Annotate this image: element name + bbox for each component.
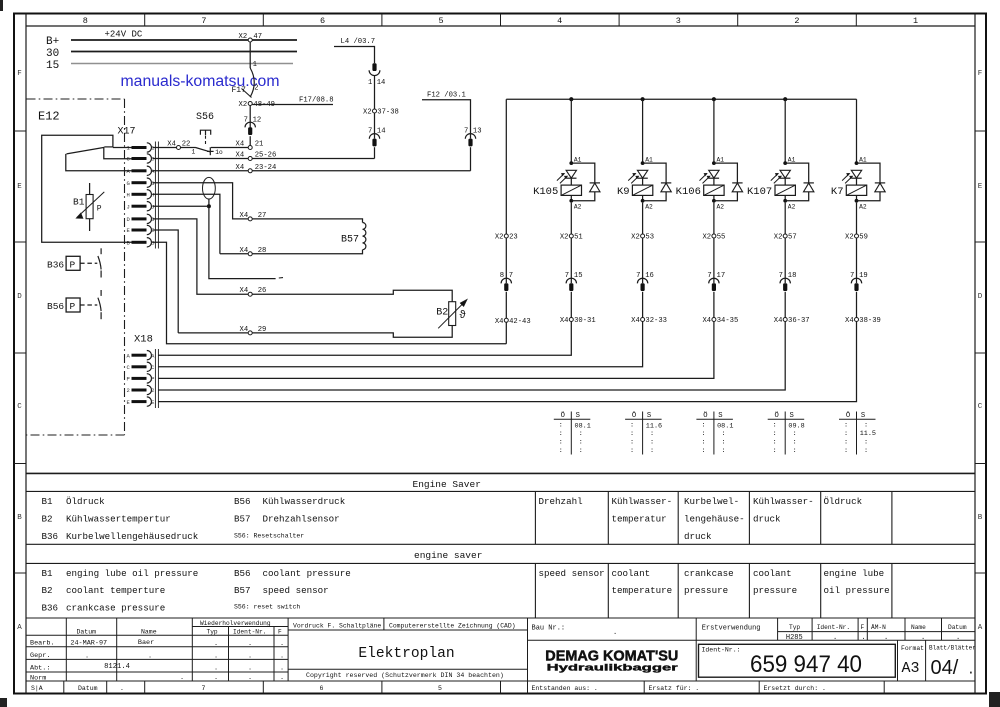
svg-text:E: E (978, 183, 983, 191)
svg-text:coolant pressure: coolant pressure (263, 568, 351, 579)
connector 7 15 symbol (566, 278, 576, 283)
wire 7 13 down to X4 23-24 row (470, 147, 472, 171)
svg-text:Ident-Nr.:: Ident-Nr.: (702, 646, 741, 653)
svg-text:E: E (151, 227, 155, 234)
svg-text:enging lube oil pressure: enging lube oil pressure (66, 568, 198, 579)
terminal A1 of K7 (855, 161, 859, 165)
bottom strip line (26, 680, 975, 682)
svg-text:B56: B56 (234, 496, 251, 507)
svg-text:F17/08.8: F17/08.8 (299, 97, 334, 105)
svg-text:S56: S56 (196, 112, 214, 123)
svg-text:.: . (214, 653, 218, 661)
wire F17/08.8 stub going right (252, 104, 333, 106)
svg-text:.: . (248, 653, 252, 661)
svg-text:14: 14 (377, 128, 386, 136)
wire X4 42-43 down to return corner (505, 322, 507, 344)
connector X17 pin J (132, 205, 147, 208)
svg-text:F: F (278, 628, 282, 635)
node X2 59 (855, 234, 859, 238)
wire 7 19 to node X4 38-39 (856, 292, 858, 318)
wire LED to coil of K105 (570, 178, 572, 185)
svg-text:7: 7 (201, 16, 206, 26)
wire LED to coil of K107 (784, 178, 786, 185)
wire 7 14 down to X4 25-26 row (374, 147, 376, 158)
svg-text:Engine Saver: Engine Saver (413, 479, 481, 490)
svg-text:A2: A2 (717, 203, 725, 210)
wire X4 32-33 down to X18 run (158, 322, 642, 367)
node X4 22 (177, 146, 181, 150)
wire 8 7 to node X4 42-43 (505, 292, 507, 319)
svg-text:pressure: pressure (684, 585, 728, 596)
svg-text:.: . (214, 640, 218, 648)
svg-text::: : (630, 447, 634, 455)
wire X17 pin H riser (153, 194, 220, 254)
svg-text:Entstanden aus: .: Entstanden aus: . (532, 685, 598, 692)
connector X17 pin D (132, 217, 147, 220)
connector 1 14 symbol (male above female) (372, 63, 376, 71)
svg-text:speed sensor: speed sensor (539, 568, 605, 579)
B1 switch contact to pin C wire (104, 147, 132, 158)
svg-text:Format: Format (901, 645, 924, 652)
svg-text:2: 2 (794, 16, 799, 26)
svg-text:A: A (127, 168, 131, 175)
svg-text:H: H (151, 192, 154, 199)
node X4 27 (248, 217, 252, 221)
svg-text::: : (701, 447, 705, 455)
svg-text:P: P (127, 376, 130, 383)
svg-text:engine saver: engine saver (414, 550, 482, 561)
ident number box (699, 644, 896, 677)
B1 switch blade (67, 147, 105, 154)
svg-text::: : (844, 447, 848, 455)
shield drain to pin J wire (208, 199, 210, 205)
wire X4 30-31 down to X18 run (158, 322, 571, 356)
svg-text:B1: B1 (42, 496, 54, 507)
freewheel diode of K107 (785, 163, 809, 183)
svg-text:23-24: 23-24 (255, 164, 277, 172)
svg-text:B36: B36 (42, 531, 59, 542)
svg-text:Drehzahl: Drehzahl (539, 496, 583, 507)
wire X2 37-38 down to connector 7 14 (374, 113, 376, 139)
svg-text::: : (701, 430, 705, 438)
svg-text:1: 1 (127, 145, 131, 152)
svg-text:Erstverwendung: Erstverwendung (702, 625, 761, 633)
svg-text:C: C (151, 156, 155, 163)
svg-text:Bau Nr.:: Bau Nr.: (532, 625, 566, 633)
svg-text::: : (559, 422, 563, 430)
connector X18 body lines (154, 349, 156, 408)
svg-text:E12: E12 (38, 110, 60, 124)
svg-text:.: . (120, 685, 124, 692)
fuse F17 breaker element (250, 68, 254, 97)
connector 7 13 symbol (465, 134, 475, 139)
relay coil K105 (561, 185, 581, 195)
svg-text:X2: X2 (774, 234, 783, 242)
LED indicator of K106 (709, 170, 719, 178)
svg-text::: : (721, 430, 725, 438)
svg-text:Ö: Ö (846, 411, 850, 420)
node X2 37-38 (373, 109, 377, 113)
svg-text:C: C (151, 364, 155, 371)
svg-text:E: E (17, 183, 22, 191)
relay supply bus (506, 98, 856, 100)
svg-text:A: A (151, 168, 155, 175)
svg-text:D: D (151, 216, 155, 223)
connector X18 pin A (132, 354, 147, 357)
svg-text::: : (793, 430, 797, 438)
connector X17 pin G (132, 181, 147, 184)
node X2 47 on B+ rail (248, 38, 252, 42)
svg-text:Typ: Typ (789, 624, 800, 631)
svg-text:Ö: Ö (632, 411, 636, 420)
svg-text:Kurbelwellengehäusedruck: Kurbelwellengehäusedruck (66, 531, 199, 542)
svg-text:Ersetzt durch: .: Ersetzt durch: . (764, 685, 826, 692)
svg-text:.: . (280, 665, 284, 673)
svg-text:8: 8 (83, 16, 88, 26)
svg-text:K7: K7 (831, 186, 844, 198)
svg-text:J: J (127, 203, 130, 210)
wire X17 pin E riser (153, 230, 179, 333)
svg-text:659 947 40: 659 947 40 (750, 651, 862, 678)
wire A2 of K106 to node X2 55 (713, 203, 715, 234)
B1 switch contact anvil (104, 146, 113, 148)
svg-text:B: B (978, 514, 983, 522)
node X2 51 (569, 234, 573, 238)
connector 7 18 symbol (780, 278, 790, 283)
svg-text::: : (721, 447, 725, 455)
svg-text:04/: 04/ (931, 657, 959, 679)
bus junction dot column K105 (569, 97, 573, 101)
wire A2 of K105 to node X2 51 (570, 203, 572, 234)
connector X18 pin E (132, 400, 147, 403)
svg-text:D: D (127, 216, 131, 223)
svg-text:X2: X2 (845, 234, 854, 242)
freewheel diode of K105 (571, 163, 595, 183)
svg-text:coolant temperture: coolant temperture (66, 585, 165, 596)
svg-text:B2: B2 (42, 514, 53, 525)
svg-text:1: 1 (253, 61, 257, 69)
wire bus to relay K107 A1 (784, 99, 786, 163)
svg-text:B2: B2 (42, 585, 53, 596)
svg-text:lengehäuse-: lengehäuse- (684, 514, 745, 525)
bottom strip dividers (63, 681, 65, 694)
node X4 38-39 (855, 318, 859, 322)
wire X4 36-37 down to X18 run (158, 322, 785, 391)
node X4 28 (248, 252, 252, 256)
zone band inner verticals (25, 14, 27, 694)
svg-text:A1: A1 (645, 157, 653, 164)
temperature sensor B2 body (449, 302, 456, 326)
svg-text:K106: K106 (676, 186, 701, 198)
switch S56 actuator dashed link (205, 136, 207, 146)
bus junction dot column K9 (641, 97, 645, 101)
svg-text::: : (864, 439, 868, 447)
svg-text:coolant: coolant (753, 568, 792, 579)
speed sensor B57 coil (363, 223, 366, 250)
svg-text:Öldruck: Öldruck (824, 496, 863, 507)
pressure switch B36 P box (66, 256, 80, 270)
svg-text:Vordruck F. Schaltpläne: Vordruck F. Schaltpläne (293, 622, 381, 629)
svg-text:A2: A2 (788, 203, 796, 210)
svg-text:G: G (151, 180, 154, 187)
switch S56 blade (196, 148, 211, 152)
svg-text:B: B (127, 240, 131, 247)
svg-text:A1: A1 (859, 157, 867, 164)
svg-text:X4: X4 (240, 287, 249, 295)
wire 7 18 to node X4 36-37 (784, 292, 786, 318)
svg-text:Typ: Typ (207, 628, 218, 635)
wire X17 pin D to node X4 26 (153, 219, 249, 294)
wire 7 17 to node X4 34-35 (713, 292, 715, 318)
svg-text:coolant: coolant (612, 568, 651, 579)
wire node X4 26 to B2 top lead (252, 290, 452, 302)
svg-text:B: B (17, 514, 22, 522)
svg-text:X4: X4 (236, 141, 245, 149)
svg-text:B36: B36 (42, 603, 59, 614)
svg-text:Kühlwasser-: Kühlwasser- (612, 496, 673, 507)
terminal A1 of K106 (712, 161, 716, 165)
svg-text:A1: A1 (788, 157, 796, 164)
terminal A1 of K9 (641, 161, 645, 165)
svg-text:speed sensor: speed sensor (263, 585, 329, 596)
svg-text:Datum: Datum (77, 628, 97, 635)
relay coil K107 (775, 185, 795, 195)
svg-text:X17: X17 (118, 127, 136, 138)
svg-text:X4: X4 (495, 318, 504, 326)
connector 7 16 symbol (637, 278, 647, 283)
wire coil to terminal A2 of K107 (784, 195, 786, 200)
svg-text:temperatur: temperatur (612, 514, 667, 525)
svg-text:A: A (978, 624, 983, 632)
svg-text:G: G (127, 180, 130, 187)
svg-text:Name: Name (911, 624, 926, 631)
svg-text:oil pressure: oil pressure (824, 585, 890, 596)
svg-text::: : (844, 430, 848, 438)
title block left row lines (192, 626, 288, 628)
svg-text:X2: X2 (239, 33, 248, 41)
svg-text::: : (773, 430, 777, 438)
wire connector 7 12 to node X4 21 (249, 136, 251, 145)
schematic area bottom border (26, 472, 975, 474)
connector X17 pin A (132, 169, 147, 172)
terminal A2 of K107 (783, 199, 787, 203)
wire X17 pin 1 to node X4 22 (153, 147, 177, 149)
svg-text:P: P (151, 376, 154, 383)
svg-text:crankcase: crankcase (684, 568, 734, 579)
relay coil K7 (846, 185, 866, 195)
svg-text:6: 6 (320, 685, 324, 692)
svg-text::: : (579, 430, 583, 438)
wire node X4 28 to pin H riser (220, 253, 248, 255)
node X4 36-37 (783, 318, 787, 322)
svg-text:.: . (248, 665, 252, 673)
svg-text:P: P (97, 205, 102, 214)
node X4 21 (248, 146, 252, 150)
svg-text:42-43: 42-43 (509, 318, 531, 326)
svg-text:3: 3 (676, 16, 681, 26)
title block right header cells (695, 618, 697, 681)
connector 8 7 symbol (501, 278, 511, 283)
svg-text:+24V DC: +24V DC (105, 30, 143, 40)
node X4 25-26 (248, 157, 252, 161)
wire X2 53 to connector 7 16 (642, 238, 644, 283)
B1 switch common bracket to pin A (66, 154, 132, 171)
wire X2 51 to connector 7 15 (570, 238, 572, 283)
svg-text:D: D (17, 293, 22, 301)
svg-text:S56: reset switch: S56: reset switch (234, 604, 300, 611)
svg-text:38-39: 38-39 (859, 317, 881, 325)
svg-text:X4: X4 (845, 317, 854, 325)
node X2 57 (783, 234, 787, 238)
svg-text:B57: B57 (234, 585, 251, 596)
node X4 32-33 (641, 318, 645, 322)
svg-text:B56: B56 (234, 568, 251, 579)
wire LED to coil of K106 (713, 178, 715, 185)
svg-text:A: A (127, 352, 131, 359)
switch S56 manual actuator (200, 130, 210, 135)
svg-text:5: 5 (438, 685, 442, 692)
format cell (897, 640, 899, 681)
svg-text:47: 47 (253, 33, 262, 41)
svg-text:X4: X4 (560, 317, 569, 325)
svg-text:Computererstellte Zeichnung (C: Computererstellte Zeichnung (CAD) (389, 622, 516, 629)
wire bus to relay K9 A1 (642, 99, 644, 163)
svg-text:A: A (151, 352, 155, 359)
pressure switch B56 contact (100, 290, 102, 296)
svg-text::: : (559, 439, 563, 447)
wire node X4 27 to B57 coil top (252, 219, 362, 223)
svg-text:15: 15 (574, 272, 583, 280)
svg-text:B36: B36 (47, 260, 64, 271)
svg-text:5: 5 (439, 16, 444, 26)
svg-text:Kühlwasser-: Kühlwasser- (753, 496, 814, 507)
rail B+ wire (71, 39, 297, 41)
svg-text:B2: B2 (436, 308, 448, 319)
wire LED to coil of K9 (642, 178, 644, 185)
svg-text:K105: K105 (533, 186, 558, 198)
wire A2 of K9 to node X2 53 (642, 203, 644, 234)
node X4 23-24 (248, 169, 252, 173)
wire X2 48-49 down to connector 7 12 (249, 106, 251, 128)
connector X18 pin C (132, 365, 147, 368)
svg-text:32-33: 32-33 (645, 317, 667, 325)
svg-text:25-26: 25-26 (255, 152, 277, 160)
svg-text:Copyright reserved (Schutzverm: Copyright reserved (Schutzvermerk DIN 34… (306, 672, 504, 679)
wire coil to terminal A2 of K9 (642, 195, 644, 200)
svg-text::: : (650, 447, 654, 455)
svg-text::: : (559, 447, 563, 455)
relay return line left vertical (505, 99, 507, 234)
wire coil to terminal A2 of K105 (570, 195, 572, 200)
svg-text:A: A (17, 624, 22, 632)
connector X18 pin 2 (132, 389, 147, 392)
svg-text:F: F (978, 70, 983, 78)
B1 switch pin 1 internal wire (113, 147, 132, 149)
svg-text:Ö: Ö (703, 411, 707, 420)
svg-text:D: D (978, 293, 983, 301)
svg-text:.: . (613, 629, 617, 637)
svg-text:21: 21 (255, 141, 264, 149)
svg-text:1: 1 (192, 148, 196, 155)
connector X17 pin C (132, 157, 147, 160)
LED indicator of K107 (780, 170, 790, 178)
connector 7 12 symbol (245, 122, 255, 127)
svg-text:ÄM-N: ÄM-N (871, 624, 886, 631)
svg-text:2: 2 (127, 387, 130, 394)
svg-text:51: 51 (574, 234, 583, 242)
wire switch S56 to node X4 21 (211, 147, 248, 149)
svg-text:druck: druck (753, 514, 781, 525)
freewheel diode of K106 (714, 163, 738, 183)
wire X2 59 to connector 7 19 (856, 238, 858, 283)
wire 7 15 to node X4 30-31 (570, 292, 572, 318)
wire A2 of K107 to node X2 57 (784, 203, 786, 234)
wire X2 55 to connector 7 17 (713, 238, 715, 283)
svg-text::: : (630, 430, 634, 438)
svg-text:13: 13 (473, 128, 482, 136)
wire X17 pin A row to F12 drop (153, 170, 471, 172)
svg-text:1: 1 (368, 79, 372, 87)
svg-text::: : (844, 439, 848, 447)
svg-text:.: . (214, 665, 218, 673)
svg-text:B1: B1 (42, 568, 54, 579)
top zone ticks (144, 14, 146, 27)
svg-text:53: 53 (645, 234, 654, 242)
wire X17 pin G to node X4 27 (153, 183, 249, 219)
sensor B2 arrow (438, 304, 462, 328)
svg-text:29: 29 (258, 326, 267, 334)
svg-text:Baer: Baer (138, 639, 154, 647)
svg-text:E: E (127, 227, 131, 234)
svg-text:4: 4 (557, 16, 562, 26)
svg-text:.: . (280, 640, 284, 648)
svg-text:2: 2 (254, 85, 258, 93)
svg-text:B57: B57 (234, 514, 251, 525)
wire L4 branch corner (334, 47, 375, 64)
svg-text:pressure: pressure (753, 585, 797, 596)
svg-text:C: C (978, 403, 983, 411)
svg-text:11.5: 11.5 (860, 430, 876, 438)
svg-text:A2: A2 (645, 203, 653, 210)
svg-text:57: 57 (788, 234, 797, 242)
svg-text:X4: X4 (240, 212, 249, 220)
wire node X4 22 to switch blade (181, 147, 196, 149)
svg-text:16: 16 (645, 272, 654, 280)
wire 7 16 to node X4 32-33 (642, 292, 644, 318)
svg-text:1: 1 (913, 16, 918, 26)
node X2 48-49 (248, 102, 252, 106)
svg-text::: : (701, 422, 705, 430)
node X2 55 (712, 234, 716, 238)
rail 30 wire (71, 51, 297, 53)
svg-text::: : (773, 447, 777, 455)
svg-text:A2: A2 (574, 203, 582, 210)
connector 7 17 symbol (709, 278, 719, 283)
svg-text:X2: X2 (631, 234, 640, 242)
wire B57 coil bottom to node X4 28 (252, 250, 362, 254)
svg-text:E: E (127, 399, 131, 406)
svg-text:2: 2 (151, 387, 154, 394)
svg-text:S56: Resetschalter: S56: Resetschalter (234, 533, 304, 540)
svg-text:Name: Name (141, 628, 157, 635)
connector X17 pin H (132, 193, 147, 196)
svg-text::: : (579, 439, 583, 447)
svg-text:S|A: S|A (31, 685, 43, 692)
svg-text:H: H (127, 192, 130, 199)
side zone ticks (14, 130, 26, 132)
svg-text:B1: B1 (73, 197, 85, 208)
enclosure E12 dashed boundary (27, 99, 125, 435)
